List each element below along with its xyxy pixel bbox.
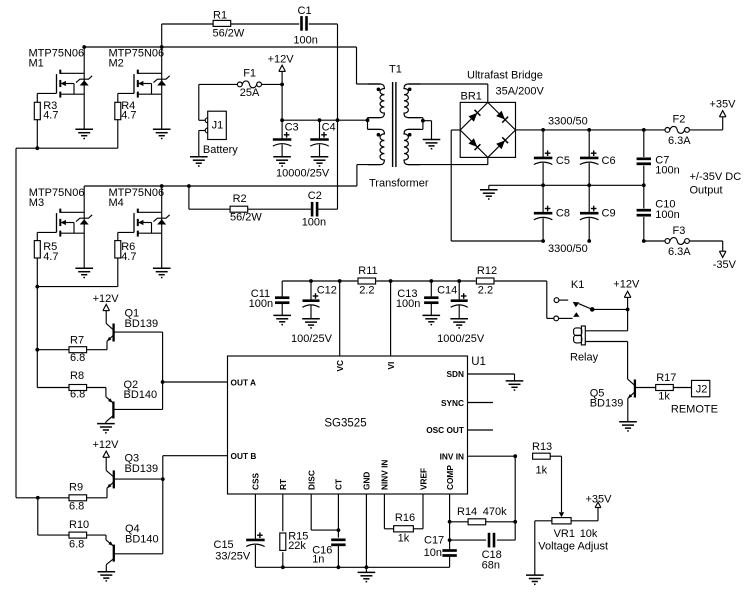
resistor R1 xyxy=(213,10,245,40)
svg-text:R13: R13 xyxy=(532,441,552,453)
svg-text:K1: K1 xyxy=(571,279,584,291)
svg-text:1k: 1k xyxy=(398,533,410,545)
wire VR1 left to ground xyxy=(535,521,552,575)
svg-text:SG3525: SG3525 xyxy=(324,417,366,429)
capacitor C10 xyxy=(637,185,680,241)
svg-text:C4: C4 xyxy=(322,122,336,134)
svg-text:6.8: 6.8 xyxy=(69,500,84,512)
wire fuse to +12V node xyxy=(262,83,283,85)
label +/-35V DC Output xyxy=(690,171,742,197)
wire R13 to VR1 wiper xyxy=(550,456,561,512)
svg-text:SDN: SDN xyxy=(446,369,464,379)
transistor M4 (MTP75N06) xyxy=(109,186,170,268)
junction C5 top xyxy=(541,128,545,132)
resistor R9 xyxy=(16,481,107,512)
junction F1/+12V xyxy=(280,83,284,87)
wire OSC OUT stub xyxy=(468,429,494,431)
power -35V output xyxy=(713,251,737,271)
svg-text:C12: C12 xyxy=(317,285,337,297)
svg-text:6.8: 6.8 xyxy=(70,352,85,364)
svg-text:100n: 100n xyxy=(249,298,273,310)
svg-text:+/-35V DC: +/-35V DC xyxy=(690,171,742,183)
wire C1/C2 common vertical to +12V rail xyxy=(337,24,339,209)
junction R9/R10 xyxy=(36,496,40,500)
svg-text:C8: C8 xyxy=(556,207,570,219)
ground Q4 xyxy=(98,572,116,581)
wire Q1 base to OUT A xyxy=(114,331,163,333)
capacitor C8 xyxy=(534,185,570,241)
junction C8 bottom xyxy=(541,239,545,243)
junction secondary centre tap xyxy=(421,119,425,123)
power +12V (Q1) xyxy=(93,293,120,323)
fuse F1 xyxy=(237,68,261,99)
wire secondary centre tap xyxy=(408,118,423,130)
ground battery xyxy=(190,157,208,166)
power +35V output xyxy=(710,99,737,117)
wire CSS pin xyxy=(254,494,256,540)
svg-text:C17: C17 xyxy=(424,535,444,547)
transistor Q1 BD139 xyxy=(106,308,158,350)
wire secondary bottom to bridge xyxy=(408,157,488,164)
junction R7 / gate rail xyxy=(35,348,39,352)
svg-text:C6: C6 xyxy=(602,155,616,167)
transistor Q2 BD140 xyxy=(106,379,157,424)
power +12V (relay) xyxy=(613,279,640,331)
svg-text:OSC OUT: OSC OUT xyxy=(426,425,464,435)
junction C7 top xyxy=(642,128,646,132)
svg-text:10n: 10n xyxy=(424,547,442,559)
junction M1 drain xyxy=(82,45,86,49)
wire mid 0V rail xyxy=(489,185,644,190)
svg-text:R17: R17 xyxy=(656,372,676,384)
resistor R12 xyxy=(476,265,497,297)
wire M3/M4 gate drive node (y=287) xyxy=(37,286,118,288)
svg-text:100n: 100n xyxy=(396,298,420,310)
wire R2 to C2 xyxy=(248,208,313,210)
svg-text:OUT B: OUT B xyxy=(231,451,257,461)
transformer core xyxy=(393,82,396,167)
junction C12 xyxy=(309,279,313,283)
transformer secondary bottom winding xyxy=(404,129,420,164)
power +12V (Q3) xyxy=(93,439,120,470)
svg-text:U1: U1 xyxy=(471,356,486,368)
junction R2 branch xyxy=(187,184,191,188)
wire INV feedback vertical xyxy=(514,456,516,522)
svg-text:1000/25V: 1000/25V xyxy=(437,333,485,345)
capacitor C3 xyxy=(273,120,299,157)
capacitor C18 xyxy=(450,522,516,572)
svg-text:R14: R14 xyxy=(457,506,477,518)
svg-text:R8: R8 xyxy=(70,370,84,382)
transistor M2 (MTP75N06) xyxy=(109,24,170,129)
junction C9 bottom xyxy=(587,239,591,243)
svg-text:DISC: DISC xyxy=(307,470,317,490)
connector J2 REMOTE xyxy=(671,380,718,415)
resistor R11 xyxy=(358,265,378,297)
wire battery positive to fuse xyxy=(199,84,238,120)
wire +12V rail to transformer centre tap xyxy=(282,119,367,121)
junction OUT B / Q3 base xyxy=(161,477,165,481)
ground mid rail xyxy=(480,190,498,199)
resistor R14 xyxy=(450,506,516,525)
svg-text:BD140: BD140 xyxy=(125,533,159,545)
capacitor C9 xyxy=(580,185,616,241)
svg-text:56/2W: 56/2W xyxy=(230,212,262,224)
svg-text:1k: 1k xyxy=(536,465,548,477)
svg-text:OUT A: OUT A xyxy=(231,377,257,387)
svg-text:100n: 100n xyxy=(302,216,326,228)
wire bridge minus to bottom rail xyxy=(451,130,543,241)
svg-text:R9: R9 xyxy=(69,481,83,493)
wire M1/M2 gate drive node (y=148) xyxy=(16,147,118,149)
junction R14/C18 right xyxy=(513,520,517,524)
svg-text:BR1: BR1 xyxy=(461,91,482,103)
wire F3 to -35V xyxy=(689,241,722,251)
wire DISC pin xyxy=(311,494,338,530)
wire F2 to +35V xyxy=(689,117,722,130)
junction C6 top xyxy=(587,128,591,132)
svg-text:Output: Output xyxy=(690,185,723,197)
wire bottom rail to F3 xyxy=(644,240,665,242)
svg-text:10000/25V: 10000/25V xyxy=(276,168,330,180)
svg-text:C2: C2 xyxy=(308,190,322,202)
svg-text:C9: C9 xyxy=(602,207,616,219)
wire VC xyxy=(339,281,341,356)
capacitor C5 xyxy=(534,130,570,185)
junction relay pole/+12V xyxy=(626,308,630,312)
svg-text:470k: 470k xyxy=(483,506,507,518)
junction +12V rail / C4 xyxy=(318,118,322,122)
svg-text:SYNC: SYNC xyxy=(441,398,464,408)
junction GND rail xyxy=(365,565,369,569)
ground Q2 xyxy=(97,424,115,433)
svg-text:M3: M3 xyxy=(29,197,44,209)
connector J1 xyxy=(203,111,238,156)
transistor Q4 BD140 xyxy=(106,523,159,572)
svg-text:VI: VI xyxy=(386,362,396,370)
svg-text:+35V: +35V xyxy=(586,494,613,506)
svg-text:-35V: -35V xyxy=(713,259,737,271)
wire coil bottom to Q5 collector xyxy=(585,342,627,380)
svg-text:1n: 1n xyxy=(312,553,324,565)
junction C10 bottom xyxy=(642,239,646,243)
junction centre tap / +12V rail xyxy=(366,118,370,122)
wire OUT A node xyxy=(163,332,228,409)
transistor M1 (MTP75N06) xyxy=(29,47,93,129)
ground C12 xyxy=(302,319,320,328)
svg-text:1k: 1k xyxy=(658,390,670,402)
wire Q4 base to OUT B xyxy=(114,553,163,555)
bridge rectifier BR1 xyxy=(460,91,515,158)
capacitor C14 xyxy=(437,281,468,319)
junction rail / C1-C2 vertical xyxy=(336,118,340,122)
svg-text:68n: 68n xyxy=(482,560,500,572)
wire CT pin xyxy=(337,494,339,538)
capacitor C11 xyxy=(249,281,290,315)
capacitor C16 xyxy=(312,540,345,568)
wire VREF pin xyxy=(413,494,423,529)
svg-text:3300/50: 3300/50 xyxy=(548,116,588,128)
svg-text:F2: F2 xyxy=(673,114,686,126)
wire Q3 base to OUT B xyxy=(114,478,163,480)
svg-text:T1: T1 xyxy=(389,64,402,76)
svg-text:GND: GND xyxy=(362,472,372,490)
capacitor C6 xyxy=(580,130,616,185)
wire SYNC stub xyxy=(468,402,494,404)
wire bridge plus to top rail xyxy=(516,129,666,131)
wire COMP pin xyxy=(449,494,451,550)
svg-text:C5: C5 xyxy=(556,155,570,167)
svg-text:F3: F3 xyxy=(673,225,686,237)
svg-text:R16: R16 xyxy=(395,512,415,524)
resistor R6 xyxy=(115,241,137,287)
wire +12V to coil top xyxy=(585,330,627,332)
junction C13 xyxy=(429,279,433,283)
wire secondary centre tap to ground xyxy=(423,121,432,140)
svg-text:4.7: 4.7 xyxy=(121,251,136,263)
svg-text:M4: M4 xyxy=(109,197,124,209)
svg-text:VR1: VR1 xyxy=(554,528,575,540)
junction INV/R13 xyxy=(513,454,517,458)
svg-text:CSS: CSS xyxy=(251,472,261,490)
wire R12 to relay contact xyxy=(547,281,554,318)
transformer primary bottom winding xyxy=(368,129,384,164)
svg-text:3300/50: 3300/50 xyxy=(548,243,588,255)
wire R1C1 top branch (y=24) xyxy=(162,23,338,25)
svg-text:F1: F1 xyxy=(243,68,256,80)
junction +12V rail / C3 xyxy=(280,118,284,122)
svg-text:100n: 100n xyxy=(293,35,317,47)
svg-text:C14: C14 xyxy=(437,285,457,297)
capacitor C1 xyxy=(293,5,317,47)
svg-text:6.8: 6.8 xyxy=(69,539,84,551)
svg-text:25A: 25A xyxy=(240,87,260,99)
transformer primary top winding xyxy=(368,84,384,118)
relay K1 contacts xyxy=(554,279,595,321)
junction COMP/C18 xyxy=(448,538,452,542)
junction VC xyxy=(338,279,342,283)
svg-text:C3: C3 xyxy=(285,122,299,134)
fuse F3 xyxy=(665,225,691,258)
resistor R16 xyxy=(394,512,415,545)
svg-text:100n: 100n xyxy=(655,165,679,177)
svg-text:+12V: +12V xyxy=(93,293,120,305)
capacitor C17 xyxy=(424,535,457,568)
wire SDN to ground xyxy=(468,374,515,381)
svg-text:COMP: COMP xyxy=(445,465,455,490)
svg-text:R12: R12 xyxy=(477,265,497,277)
wire battery negative to ground xyxy=(199,131,205,157)
ground C14 xyxy=(450,319,468,328)
svg-text:Transformer: Transformer xyxy=(369,178,429,190)
transistor Q5 BD139 xyxy=(590,379,635,422)
wire NINV IN pin xyxy=(384,494,393,529)
svg-text:100/25V: 100/25V xyxy=(291,333,333,345)
svg-text:100n: 100n xyxy=(655,209,679,221)
ground secondary centre tap xyxy=(423,140,441,149)
svg-text:RT: RT xyxy=(278,479,288,490)
resistor R10 xyxy=(38,519,106,551)
svg-text:56/2W: 56/2W xyxy=(213,27,245,39)
ground U1 xyxy=(358,572,376,581)
capacitor C4 xyxy=(310,120,335,157)
wire primary centre tap xyxy=(368,118,381,130)
svg-text:6.3A: 6.3A xyxy=(668,135,691,147)
svg-text:Battery: Battery xyxy=(203,144,238,156)
wire bottom rail xyxy=(255,566,449,568)
transformer secondary top winding xyxy=(404,84,420,118)
svg-text:VREF: VREF xyxy=(418,468,428,490)
ground M4 xyxy=(153,268,171,277)
junction R3 / gate wire xyxy=(35,146,39,150)
svg-text:4.7: 4.7 xyxy=(43,110,58,122)
svg-text:NINV IN: NINV IN xyxy=(380,460,390,490)
capacitor C12 xyxy=(303,281,337,319)
junction R15 bottom xyxy=(281,565,285,569)
resistor R17 xyxy=(635,372,692,403)
wire relay pole to +12V xyxy=(592,308,627,310)
wire INV IN xyxy=(468,455,516,457)
junction M4 drain xyxy=(160,184,164,188)
svg-text:CT: CT xyxy=(334,479,344,490)
svg-text:10k: 10k xyxy=(580,528,598,540)
ground C3 xyxy=(273,157,291,166)
junction C5 bottom xyxy=(541,183,545,187)
svg-text:2.2: 2.2 xyxy=(478,285,493,297)
svg-text:6.3A: 6.3A xyxy=(668,246,691,258)
svg-text:Relay: Relay xyxy=(570,352,599,364)
wire M1/M2 drain node (y=47) xyxy=(84,47,380,84)
svg-text:REMOTE: REMOTE xyxy=(671,403,718,415)
junction OUT A xyxy=(161,380,165,384)
svg-text:+12V: +12V xyxy=(268,53,295,65)
capacitor C13 xyxy=(396,281,439,315)
ground Q5 xyxy=(619,422,637,431)
svg-text:BD140: BD140 xyxy=(124,389,158,401)
wire M3/M4 drain node (y=186) xyxy=(84,165,380,186)
junction C16 bottom xyxy=(337,565,341,569)
wire VR1 right to +35V xyxy=(571,508,598,521)
resistor R13 xyxy=(532,441,552,477)
svg-text:+12V: +12V xyxy=(93,439,120,451)
capacitor C15 xyxy=(214,532,265,567)
capacitor C2 xyxy=(302,190,326,228)
resistor R15 xyxy=(280,531,309,568)
svg-text:+12V: +12V xyxy=(613,279,640,291)
wire Q2 base to OUT A xyxy=(113,408,162,410)
wire OUT B node xyxy=(163,456,228,554)
svg-text:35A/200V: 35A/200V xyxy=(496,86,545,98)
svg-text:6.8: 6.8 xyxy=(70,388,85,400)
potentiometer VR1 xyxy=(538,512,608,552)
svg-text:J2: J2 xyxy=(696,384,708,396)
svg-text:Ultrafast Bridge: Ultrafast Bridge xyxy=(467,70,543,82)
op-amp U1 SG3525 xyxy=(228,356,486,494)
svg-text:22k: 22k xyxy=(288,540,306,552)
svg-text:C15: C15 xyxy=(214,539,234,551)
svg-text:M2: M2 xyxy=(109,57,124,69)
svg-text:R10: R10 xyxy=(69,519,89,531)
svg-text:BD139: BD139 xyxy=(590,398,624,410)
resistor R8 xyxy=(37,370,106,400)
junction VI xyxy=(389,279,393,283)
wire secondary top to bridge xyxy=(408,84,488,102)
svg-text:33/25V: 33/25V xyxy=(215,551,251,563)
wire gate rail down to R7/R8 xyxy=(36,287,38,388)
relay K1 coil xyxy=(570,326,599,364)
svg-text:4.7: 4.7 xyxy=(121,110,136,122)
junction C14 xyxy=(457,279,461,283)
ground M1 xyxy=(75,129,93,138)
fuse F2 xyxy=(665,114,691,147)
svg-text:INV IN: INV IN xyxy=(440,451,464,461)
ground SDN xyxy=(506,381,524,390)
junction M2 drain xyxy=(160,45,164,49)
resistor R4 xyxy=(115,100,137,148)
wire R10 branch xyxy=(37,498,39,535)
svg-text:4.7: 4.7 xyxy=(43,251,58,263)
transistor Q3 BD139 xyxy=(106,452,158,497)
svg-text:R11: R11 xyxy=(358,265,377,277)
svg-text:+35V: +35V xyxy=(710,99,737,111)
ground VR1 xyxy=(526,575,544,584)
wire RT pin xyxy=(282,494,284,531)
ground C4 xyxy=(311,157,329,166)
capacitor C7 xyxy=(637,130,680,185)
wire VI xyxy=(390,281,392,356)
svg-text:BD139: BD139 xyxy=(125,463,159,475)
svg-text:Voltage Adjust: Voltage Adjust xyxy=(538,541,608,553)
svg-text:R2: R2 xyxy=(233,193,247,205)
junction DISC/CT xyxy=(337,528,341,532)
junction C7/C10 mid xyxy=(642,183,646,187)
wire C2 to +12V vertical xyxy=(317,208,338,210)
resistor R7 xyxy=(37,335,107,365)
power +12V (battery) xyxy=(268,53,295,120)
svg-text:R7: R7 xyxy=(70,335,84,347)
svg-text:R1: R1 xyxy=(213,10,227,22)
resistor R3 xyxy=(34,100,58,148)
junction COMP/R14 xyxy=(448,520,452,524)
junction C6 bottom xyxy=(587,183,591,187)
svg-text:2.2: 2.2 xyxy=(359,285,374,297)
svg-text:C1: C1 xyxy=(298,5,312,17)
junction R5 / gate wire xyxy=(35,285,39,289)
power +35V (VR1) xyxy=(586,494,613,508)
wire GND pin xyxy=(365,494,367,572)
ground C11 xyxy=(273,315,291,324)
transistor M3 (MTP75N06) xyxy=(29,186,92,268)
resistor R2 xyxy=(230,193,262,224)
ground C13 xyxy=(423,315,441,324)
svg-text:VC: VC xyxy=(335,360,345,372)
svg-text:M1: M1 xyxy=(29,57,44,69)
resistor R5 xyxy=(34,241,58,287)
svg-text:J1: J1 xyxy=(212,119,224,131)
wire control +12V rail xyxy=(282,280,547,282)
svg-text:BD139: BD139 xyxy=(125,318,159,330)
ground M2 xyxy=(153,129,171,138)
wire R2 branch xyxy=(189,186,230,209)
ground M3 xyxy=(75,268,93,277)
wire left rail to Q3/Q4 drive xyxy=(15,148,17,498)
